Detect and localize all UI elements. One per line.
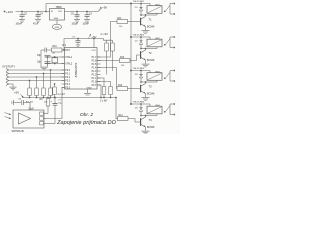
svg-text:P1.1: P1.1 [92,78,97,80]
svg-text:2 x 4k7: 2 x 4k7 [100,101,108,103]
wire C8 to module [29,103,31,111]
resistor R15 [97,82,112,99]
label R1-R4 [26,101,48,103]
svg-text:VÝSTUPY: VÝSTUPY [2,64,15,68]
ir arrows [5,113,11,119]
resistor R12 [120,57,131,67]
relay contacts K2 [164,36,175,48]
svg-text:BC546: BC546 [147,26,155,29]
svg-text:47µF: 47µF [33,23,39,25]
ground of crystal caps [40,67,48,70]
svg-text:BC546: BC546 [147,59,155,62]
label relay type block 2 [133,35,145,37]
svg-text:R13: R13 [118,85,123,87]
wire P3.7 to rail [97,85,117,98]
op-amp IC1 AT89C2051 box [62,43,97,89]
capacitor C5 100nF [16,12,28,26]
wire XTAL1 [45,56,65,58]
svg-text:R10: R10 [53,46,58,48]
svg-text:TGL5T-RE3: TGL5T-RE3 [133,68,145,70]
node +12V input terminal [4,10,13,14]
ground under IC1 [84,94,91,95]
svg-text:T4: T4 [149,118,153,122]
svg-text:XTAL1: XTAL1 [65,56,73,59]
svg-text:2 x 4k7: 2 x 4k7 [101,34,109,36]
svg-text:C3: C3 [89,13,93,15]
node +5V arrow label rail [14,91,24,98]
pins IC1 right side [92,57,101,87]
wire coil bottom to collector [141,115,157,117]
svg-text:P1.6: P1.6 [92,60,97,62]
wire +5V bottom rail [22,97,116,99]
node +5V arrow label top [98,5,107,11]
svg-text:R14: R14 [119,115,124,117]
label relay type block 1 [133,1,145,3]
wire relay block 1 +12V feed [131,3,150,5]
svg-text:Obr. 2: Obr. 2 [80,112,93,118]
svg-text:P3.7: P3.7 [92,85,97,87]
svg-text:GND: GND [55,27,60,29]
wire coil bottom to collector [141,14,157,16]
svg-text:BC546: BC546 [147,93,155,96]
capacitor C6 100uF [71,12,80,26]
svg-text:C4: C4 [40,13,44,15]
svg-text:T1: T1 [149,17,153,21]
svg-text:+: + [51,101,53,103]
svg-text:D3: D3 [135,74,139,76]
junction rail taps [130,3,132,105]
capacitor C10 reset [45,48,52,53]
wire +5V from regulator [65,11,99,13]
svg-text:D1: D1 [135,7,139,9]
relay contacts K3 [164,70,175,82]
wire RST pin stub [62,49,65,51]
svg-text:TGL5T-RE1: TGL5T-RE1 [133,1,145,3]
wire P1.7 to R11 riser [97,22,117,58]
wire input gnd line [9,84,13,87]
svg-text:+5V: +5V [14,91,19,95]
svg-text:R9: R9 [40,99,44,101]
wire coil bottom to collector [141,48,157,50]
photodiode triangle [19,113,31,124]
svg-text:TGL5T-RE4: TGL5T-RE4 [133,102,145,104]
wire R14 to T4 base [128,119,141,123]
pin 3 of module [40,122,56,125]
svg-text:100nF: 100nF [83,23,90,25]
svg-text:+5V: +5V [92,35,97,39]
transistor T1 BC546 [141,15,155,30]
wire P1.6 to R12 [97,60,120,62]
pin 2 of module [40,117,49,120]
diode D4 [135,103,143,116]
wire C10 gnd drop [41,50,45,67]
ground of connector [10,87,17,90]
svg-text:R12: R12 [120,57,125,59]
svg-text:P3.5: P3.5 [65,87,70,89]
svg-text:P1.2: P1.2 [92,74,97,76]
svg-text:T2: T2 [149,51,153,55]
svg-text:+5V: +5V [102,5,107,9]
resistor R10 [52,46,63,52]
wire input line 3 [9,76,65,78]
svg-text:P1.7: P1.7 [92,57,97,59]
svg-text:P3.4: P3.4 [65,84,70,86]
wire +12V vertical rail [130,4,132,105]
capacitor C8 input [12,99,34,111]
svg-text:C8: C8 [18,99,22,101]
label relay type block 3 [133,68,145,70]
caption Obr. 2 [80,112,93,118]
svg-text:P1.5: P1.5 [92,64,97,66]
relay RE3 coil [147,71,162,83]
svg-text:+12V: +12V [6,10,13,14]
svg-text:100nF: 100nF [16,23,23,25]
label AT89C2051 [74,62,78,77]
resistor R13 [117,85,128,91]
relay RE2 coil [147,37,162,49]
pin VCC [91,38,96,52]
resistors R1-R4 pullups [28,70,53,98]
resistor R5 pullup P3.4 [53,83,57,98]
relay contacts K4 [164,103,175,115]
wire R10 to RST [62,49,64,51]
capacitor C11 33p [37,54,51,57]
wire R12 to T2 base [130,55,141,61]
capacitor C7 10uF [51,97,63,124]
ground of T1 emitter [142,31,150,34]
svg-text:D2: D2 [135,40,139,42]
capacitor C9 [72,37,80,47]
regulator U2 7805 box [50,5,65,20]
label relay type block 4 [133,102,145,104]
ir module U3 SFH506 box [13,110,44,128]
wire P1.4 to R13 riser [97,68,117,89]
wire input line 1 [9,69,65,71]
wire input line 2 [9,73,65,75]
wire +5V MCU supply [64,38,104,40]
resistor R9 [40,97,50,114]
label 2x4k7 bottom [100,101,108,103]
connector K1 pins [6,69,9,86]
svg-text:C6: C6 [71,13,75,15]
svg-text:100µF: 100µF [72,23,79,25]
wire coil bottom to collector [141,81,157,83]
svg-text:IN: IN [51,11,54,13]
ground of T3 emitter [142,98,150,101]
svg-text:P3.3: P3.3 [65,80,70,82]
svg-text:AT89C2051: AT89C2051 [74,62,78,77]
capacitor C12 33p [37,61,51,64]
wire XTAL2 [45,63,65,65]
svg-text:VCC: VCC [91,50,96,52]
wire pullup top header [104,39,113,41]
svg-text:Zapojenie prijímača DO: Zapojenie prijímača DO [56,120,117,126]
wire +12V input [16,11,50,13]
relay RE1 coil [147,4,162,16]
transistor T4 BC546 [141,116,155,131]
crystal Q1 [52,53,58,65]
svg-text:GND: GND [54,18,59,20]
svg-text:P3.1: P3.1 [65,73,70,75]
pin GND of IC1 [87,87,92,93]
svg-text:P3.0: P3.0 [65,70,70,72]
wire input line 4 [9,80,65,82]
svg-text:4 x 4k7: 4 x 4k7 [58,94,66,96]
wire rail to R14 riser [116,98,118,119]
transistor T2 BC546 [141,49,155,64]
svg-text:7805: 7805 [56,5,63,9]
svg-text:OUT: OUT [58,11,63,13]
node +5V arrow label MCU [88,34,97,39]
resistor R6 pullup [105,40,109,74]
svg-text:T3: T3 [149,84,153,88]
svg-text:P1.4: P1.4 [92,67,97,69]
resistor R7 pullup [111,40,115,71]
junction [21,11,47,13]
wire relay block 4 +12V feed [131,103,150,105]
svg-text:12k: 12k [121,65,125,67]
wire regulator gnd drop [56,20,58,24]
transistor T3 BC546 [141,82,155,97]
resistor R14 [118,115,129,121]
diode D2 [135,36,143,49]
resistor R8 [97,78,106,98]
label 4x4k7 [58,94,66,96]
ground of T4 emitter [142,131,150,134]
caption Zapojenie [56,120,117,126]
capacitor C4 47uF [33,12,43,26]
pins IC1 left side [62,50,73,90]
label SFH506-36 [12,130,25,133]
wire R11 to T1 base [128,21,141,23]
svg-text:TGL5T-RE2: TGL5T-RE2 [133,35,145,37]
svg-text:BC546: BC546 [147,126,155,129]
svg-text:12k: 12k [119,26,123,28]
relay RE4 coil [147,104,162,116]
svg-text:IC1: IC1 [62,43,67,47]
wire +12V top rail horizontal [46,3,131,5]
svg-text:Q1: Q1 [52,53,56,55]
wire xtal caps to ground [47,56,49,67]
svg-text:SFH506-36: SFH506-36 [12,130,25,133]
wire R13 to T3 base [128,88,141,90]
wire ir signal to IC [48,88,65,119]
diode D1 [135,3,143,16]
svg-text:C5: C5 [24,13,28,15]
relay contacts K1 [164,3,175,15]
wire relay block 3 +12V feed [131,70,150,72]
ground GND ellipse of regulator [52,24,61,29]
junction [76,11,88,13]
ground of T2 emitter [142,64,150,67]
svg-text:P1.3: P1.3 [92,71,97,73]
label 2x4k7 top [101,34,109,36]
svg-text:XTAL2: XTAL2 [65,62,73,65]
wire RST riser to +5V [63,39,65,51]
capacitor C3 100nF [83,12,93,26]
pin 1 of module [40,112,49,115]
svg-text:C7: C7 [58,99,62,101]
svg-text:P3.2: P3.2 [65,77,70,79]
svg-text:P1.0: P1.0 [92,81,97,83]
resistor R11 [117,18,128,28]
diode D3 [135,70,143,83]
label VSTUPY connector [2,64,15,68]
wire relay block 2 +12V feed [131,36,150,38]
svg-text:D4: D4 [135,107,139,109]
svg-text:RST: RST [65,50,70,52]
wire +12V bypass riser [45,4,47,12]
